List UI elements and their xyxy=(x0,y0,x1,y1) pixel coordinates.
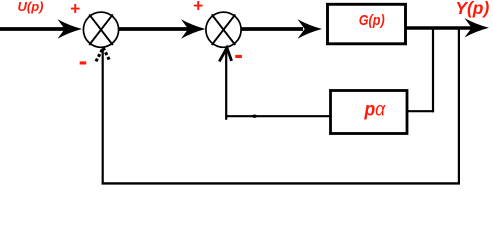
wire: outer feedback bottom horizontal xyxy=(102,182,460,184)
arrowhead output Y(p) xyxy=(465,18,490,37)
summer U2 (second summing junction) xyxy=(206,12,241,47)
svg-text:G(p): G(p) xyxy=(359,12,385,28)
summer U1 (first summing junction) xyxy=(83,12,118,47)
wire: outer feedback vertical up to summer S1 xyxy=(102,49,104,185)
block p-alpha feedback xyxy=(331,91,408,134)
arrowhead into block G xyxy=(298,19,323,38)
arrowhead into summer S2 xyxy=(181,19,206,38)
block G(p) transfer function xyxy=(328,4,406,44)
wire: outer feedback takeoff vertical from output xyxy=(458,27,460,185)
wire: summer S1 to summer S2 xyxy=(119,27,191,31)
wire: input line U(p) to summer S1 xyxy=(0,27,66,31)
svg-text:-: - xyxy=(79,46,88,76)
svg-text:-: - xyxy=(234,39,243,69)
junction dot on inner feedback wire xyxy=(252,115,257,118)
arrowhead into summer S1 xyxy=(58,19,83,38)
wire: inner feedback takeoff vertical (node to p-alpha block) xyxy=(432,27,434,112)
wire: block G to output Y(p) xyxy=(406,26,472,30)
svg-text:U(p): U(p) xyxy=(18,0,44,14)
svg-text:pα: pα xyxy=(363,98,386,120)
svg-text:Y(p): Y(p) xyxy=(455,0,489,18)
wire: horizontal into p-alpha block right side xyxy=(407,110,435,112)
svg-text:+: + xyxy=(70,0,80,19)
wire: inner feedback vertical up to summer S2 xyxy=(225,49,227,120)
arrowhead (open) into summer S2 from below xyxy=(219,48,231,62)
svg-text:+: + xyxy=(193,0,203,15)
wire: p-alpha block output left toward summer S2 xyxy=(225,115,330,117)
arrowhead (open, dashed) into summer S1 from below xyxy=(96,48,110,62)
wire: summer S2 to block G xyxy=(241,27,303,31)
